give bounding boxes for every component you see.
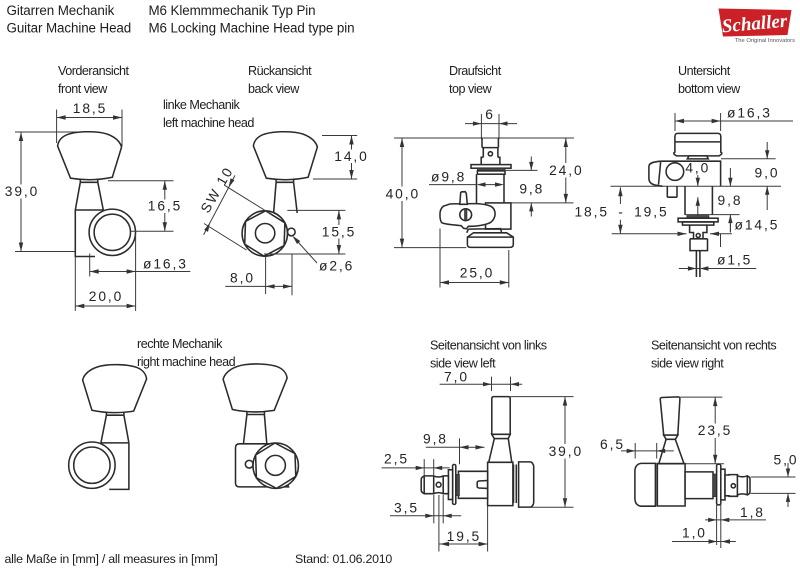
hex nut (back view) (245, 211, 285, 256)
button washer strip (side view left) (514, 465, 517, 504)
svg-text:Seitenansicht von rechts: Seitenansicht von rechts (651, 339, 776, 353)
pin section lines (side view left) (424, 476, 443, 494)
body cylinder (bottom view) (685, 186, 712, 214)
wing clamp nose (bottom view) (649, 161, 663, 186)
dimension 9,8 reference line (top view) (505, 169, 538, 171)
flange plate (top view) (471, 165, 511, 169)
svg-text:3,5: 3,5 (394, 500, 419, 515)
dimension 23,5 reference line bottom (685, 463, 724, 465)
svg-text:19,5: 19,5 (447, 529, 481, 544)
lower reference line with arrows (bottom view) (612, 232, 732, 236)
svg-text:top view: top view (449, 82, 493, 96)
dimension diameter 1,5 line and arrows (679, 266, 757, 270)
dark washer (bottom view) (687, 216, 709, 219)
post taper joint (side view left) (492, 434, 510, 438)
string post (top view) (482, 138, 498, 148)
dimension 1,0 line and outside arrows (672, 539, 736, 543)
post taper joint (side view right) (664, 435, 678, 439)
svg-text:back view: back view (248, 82, 300, 96)
svg-text:24,0: 24,0 (549, 163, 583, 178)
svg-text:M6 Klemmmechanik Typ Pin: M6 Klemmmechanik Typ Pin (149, 3, 316, 18)
svg-text:14,0: 14,0 (334, 149, 368, 164)
dimension 23,5 text (697, 424, 734, 439)
gear body block (top view) (486, 203, 511, 229)
svg-text:9,8: 9,8 (519, 182, 544, 197)
dimension 24,0 reference line bottom (511, 202, 574, 204)
gear cylinder (side view right) (685, 472, 713, 499)
clamp pin circle (back view) (287, 228, 295, 236)
clamp screw circle (top view) (460, 209, 472, 221)
svg-text:right machine head: right machine head (137, 355, 236, 369)
bushing plate (side view right) (721, 469, 725, 500)
dimension 39,0 text (3, 185, 40, 199)
stem collar (front view) (80, 179, 98, 182)
dark washer band (top view) (477, 168, 505, 171)
guide pin (bottom view) (696, 251, 700, 277)
dimension 9,8 line and arrows (side view left) (426, 438, 485, 464)
dimension 19,5 line and arrows (439, 495, 488, 552)
dimension diameter 16,3 line and arrows (bottom view) (675, 113, 793, 131)
button (side view right) (635, 463, 656, 506)
svg-text:ø1,5: ø1,5 (717, 252, 752, 267)
stem taper (right head front) (101, 415, 129, 443)
svg-text:39,0: 39,0 (549, 444, 583, 459)
dimension 25,0 extension lines (440, 229, 509, 288)
svg-text:8,0: 8,0 (230, 270, 255, 285)
wing step (bottom view) (667, 186, 677, 197)
svg-text:rechte Mechanik: rechte Mechanik (137, 337, 223, 351)
button (right head front) (83, 365, 147, 413)
bushing block (side view left) (448, 470, 452, 500)
dark washer (side view right) (713, 474, 717, 497)
dimension 14,0 reference lines (322, 135, 357, 137)
body inner circle (front view) (94, 214, 130, 250)
body inner circle (right head front) (74, 447, 110, 483)
pin section line (side view right) (737, 475, 747, 497)
flange plate (side view right) (717, 464, 721, 505)
svg-text:20,0: 20,0 (89, 289, 123, 304)
button (right head back) (223, 364, 287, 412)
dimension 6,5 line and outside arrows (621, 443, 674, 459)
dimension 2,5 line and outside arrows (382, 459, 450, 477)
stem collar (back view) (276, 179, 294, 182)
svg-text:9,8: 9,8 (718, 193, 743, 208)
dimension 16,5 line and arrows (163, 181, 167, 232)
body outer circle (right head front) (69, 442, 115, 488)
svg-text:7,0: 7,0 (444, 370, 469, 385)
hex nut (right head back) (256, 443, 296, 488)
gear cylinder (side view left) (458, 471, 487, 498)
svg-text:M6 Locking Machine Head type p: M6 Locking Machine Head type pin (149, 21, 355, 36)
dimension 16,5 reference lines (108, 180, 174, 182)
svg-text:5,0: 5,0 (774, 452, 799, 467)
dimension 14,0 line and arrows (349, 136, 353, 180)
svg-text:The Original Innovators: The Original Innovators (735, 38, 795, 44)
dimension 9,0 outside arrows (765, 142, 769, 210)
dimension 3,5 line and outside arrows (390, 495, 461, 523)
dimension 8,0 extension lines (266, 254, 292, 296)
svg-text:15,5: 15,5 (322, 224, 356, 239)
svg-text:9,0: 9,0 (755, 166, 780, 181)
svg-text:Untersicht: Untersicht (678, 64, 731, 78)
body transition trapezoid (top view) (467, 229, 502, 233)
dimension 18,5 - 19,5 arrows (618, 187, 622, 234)
dimension 9,8 outside arrows (top view) (529, 157, 533, 217)
dimension 15,5 line and arrows (337, 210, 341, 254)
dimension 6 line and outside arrows (465, 114, 517, 139)
post cone (side view left) (489, 439, 512, 463)
svg-text:bottom view: bottom view (678, 82, 741, 96)
svg-text:6: 6 (485, 107, 495, 122)
button (side view left) (519, 462, 534, 507)
string post (side view left) (492, 397, 510, 435)
body block (right head back) (236, 444, 289, 487)
dimension diameter 16,3 line and arrows (90, 234, 191, 277)
dimension 39,0 reference line bottom (15, 251, 75, 253)
lower bushing cylinder (bottom view) (690, 239, 708, 251)
svg-text:Guitar Machine Head: Guitar Machine Head (7, 21, 132, 36)
dimension diameter 9,8 leader and arrows (top view) (429, 182, 504, 186)
washer band 2 (top view) (477, 171, 505, 174)
svg-text:side view right: side view right (651, 357, 724, 371)
dimension 18,5 line and arrows (57, 110, 122, 147)
svg-text:23,5: 23,5 (698, 423, 732, 438)
svg-text:linke Mechanik: linke Mechanik (163, 98, 241, 112)
svg-text:left machine head: left machine head (163, 116, 254, 130)
threaded pin (side view right) (725, 475, 750, 497)
svg-text:alle Maße in [mm] / all measur: alle Maße in [mm] / all measures in [mm] (5, 552, 218, 566)
body bottom reference line (bottom view) (684, 214, 739, 216)
dimension 24,0 line and arrows (564, 138, 568, 203)
wing clamp top line (bottom view) (661, 161, 721, 186)
hex nut bore circle (right head back) (265, 455, 285, 475)
dimension 39,0 text (side view left) (547, 444, 585, 459)
svg-text:18,5 - 19,5: 18,5 - 19,5 (574, 204, 668, 219)
dimension 1,8 line and outside arrows (705, 500, 766, 548)
dimension diameter 2,6 leader arrow (293, 236, 318, 263)
post cone (side view right) (659, 439, 684, 463)
body block (side view right) (657, 464, 685, 506)
svg-text:Draufsicht: Draufsicht (449, 64, 502, 78)
button parting line (bottom view) (675, 141, 720, 143)
clamp pin circle (right head back) (245, 460, 253, 468)
button (back view) (253, 132, 317, 180)
svg-text:Rückansicht: Rückansicht (248, 64, 312, 78)
clamp notch (side view left) (477, 481, 487, 489)
flange extension tick (bottom view) (720, 234, 722, 247)
svg-text:SW 10: SW 10 (198, 164, 236, 216)
washer circle behind hex nut (back view) (242, 211, 287, 256)
dimension SW 10 extension lines (204, 185, 270, 250)
dimension 25,0 line and arrows (440, 280, 509, 284)
svg-text:Gitarren Mechanik: Gitarren Mechanik (7, 3, 115, 18)
dimension 23,5 reference line top (680, 396, 722, 398)
svg-text:ø16,3: ø16,3 (727, 106, 772, 121)
button (front view) (58, 132, 122, 180)
svg-text:Vorderansicht: Vorderansicht (58, 64, 130, 78)
string post (side view right) (660, 397, 680, 435)
headstock surface lines (side view right) (751, 477, 796, 493)
button collar (bottom view) (687, 156, 708, 159)
right head front view (mirrored) (69, 365, 147, 490)
svg-text:1,0: 1,0 (682, 526, 707, 541)
dimension 9,8 outside arrows (bottom view) (728, 168, 732, 232)
dimension 4,0 outside arrows (696, 175, 700, 216)
bottom cap (top view) (467, 233, 513, 248)
dimension 40,0 reference line bottom (394, 247, 466, 249)
dark washer (side view left) (456, 475, 460, 496)
headstock reference line (bottom view) (611, 185, 782, 187)
threaded pin (side view left) (421, 476, 448, 494)
stem collar (right head front) (106, 412, 124, 415)
clamp screw slot (top view) (465, 209, 467, 221)
dimension 16,5 text (147, 200, 183, 214)
dimension 39,0 reference line top (15, 131, 79, 133)
svg-text:front view: front view (58, 82, 108, 96)
right head back view (mirrored) (223, 364, 298, 488)
dimension 39,0 line and arrows (19, 132, 23, 252)
bottom cap chamfer lines (top view) (467, 236, 513, 238)
svg-text:ø16,3: ø16,3 (143, 256, 188, 271)
dimension diameter 14,5 arrow (729, 216, 731, 233)
body housing (front view) (75, 210, 103, 257)
dimension 40,0 reference line top (394, 137, 574, 139)
dimension 5,0 outside arrows (786, 463, 790, 507)
stem taper (back view) (274, 182, 298, 213)
stem collar (right head back) (247, 411, 265, 414)
svg-text:ø14,5: ø14,5 (735, 217, 780, 232)
dimension 15,5 reference lines (287, 209, 345, 211)
svg-text:40,0: 40,0 (386, 186, 420, 201)
wing clamp screw post (top view) (460, 192, 468, 205)
wing clamp (top view) (440, 204, 495, 229)
svg-text:side view left: side view left (430, 357, 496, 371)
bushing pin circle (bottom view) (696, 234, 700, 238)
dimension 39,0 reference lines (side view left) (510, 396, 573, 398)
svg-text:16,5: 16,5 (148, 199, 182, 214)
hex nut bore circle (back view) (255, 224, 274, 243)
post pin hole (top view) (488, 152, 492, 156)
svg-text:Seitenansicht von links: Seitenansicht von links (430, 339, 547, 353)
svg-text:39,0: 39,0 (5, 184, 39, 199)
wing post hole circle (bottom view) (666, 163, 684, 181)
svg-text:2,5: 2,5 (384, 451, 409, 466)
flange step 2 (bottom view) (683, 222, 714, 225)
body housing (right head front) (101, 443, 129, 490)
button (bottom view) (674, 133, 722, 156)
dimension 9,0 reference line (721, 158, 776, 160)
svg-text:1,8: 1,8 (740, 505, 765, 520)
dimension 40,0 text (384, 187, 422, 202)
dimension 23,5 line and arrows (713, 397, 717, 464)
svg-text:Stand: 01.06.2010: Stand: 01.06.2010 (295, 552, 392, 566)
wing nose inner line (bottom view) (659, 161, 661, 185)
pin hole circle (side view left) (436, 482, 441, 487)
body cylinder (top view) (477, 174, 505, 204)
dimension 24,0 text (547, 163, 586, 178)
svg-text:ø2,6: ø2,6 (319, 259, 354, 274)
stem taper (front view) (75, 182, 103, 210)
flange plate (side view left) (453, 465, 456, 505)
dimension 8,0 line and arrows (225, 284, 292, 288)
bushing thread profile (bottom view) (690, 225, 707, 239)
svg-text:9,8: 9,8 (423, 432, 448, 447)
dimension 14,0 text (332, 150, 370, 164)
stem taper (right head back) (243, 415, 267, 446)
svg-text:ø9,8: ø9,8 (431, 170, 466, 185)
svg-text:18,5: 18,5 (73, 101, 107, 116)
svg-text:6,5: 6,5 (600, 437, 625, 452)
button washer strip (side view right) (655, 463, 657, 506)
dimension 39,0 line and arrows (side view left) (563, 397, 567, 508)
dimension SW 10 line and arrows (204, 175, 235, 234)
Schaller logo red plate (719, 9, 792, 38)
dimension 15,5 text (321, 225, 357, 239)
dimension 20,0 line and arrows (75, 257, 135, 312)
svg-text:4,0: 4,0 (685, 161, 710, 176)
body block (side view left) (488, 462, 513, 505)
post collar section (top view) (481, 148, 500, 165)
pin hole circle (side view right) (731, 484, 735, 488)
body outer circle (front view) (89, 209, 135, 255)
svg-text:25,0: 25,0 (460, 265, 494, 280)
dimension 40,0 line and arrows (400, 138, 404, 248)
flange plate (bottom view) (678, 218, 718, 222)
dimension 7,0 line and outside arrows (440, 377, 523, 391)
washer circle (right head back) (253, 443, 298, 488)
